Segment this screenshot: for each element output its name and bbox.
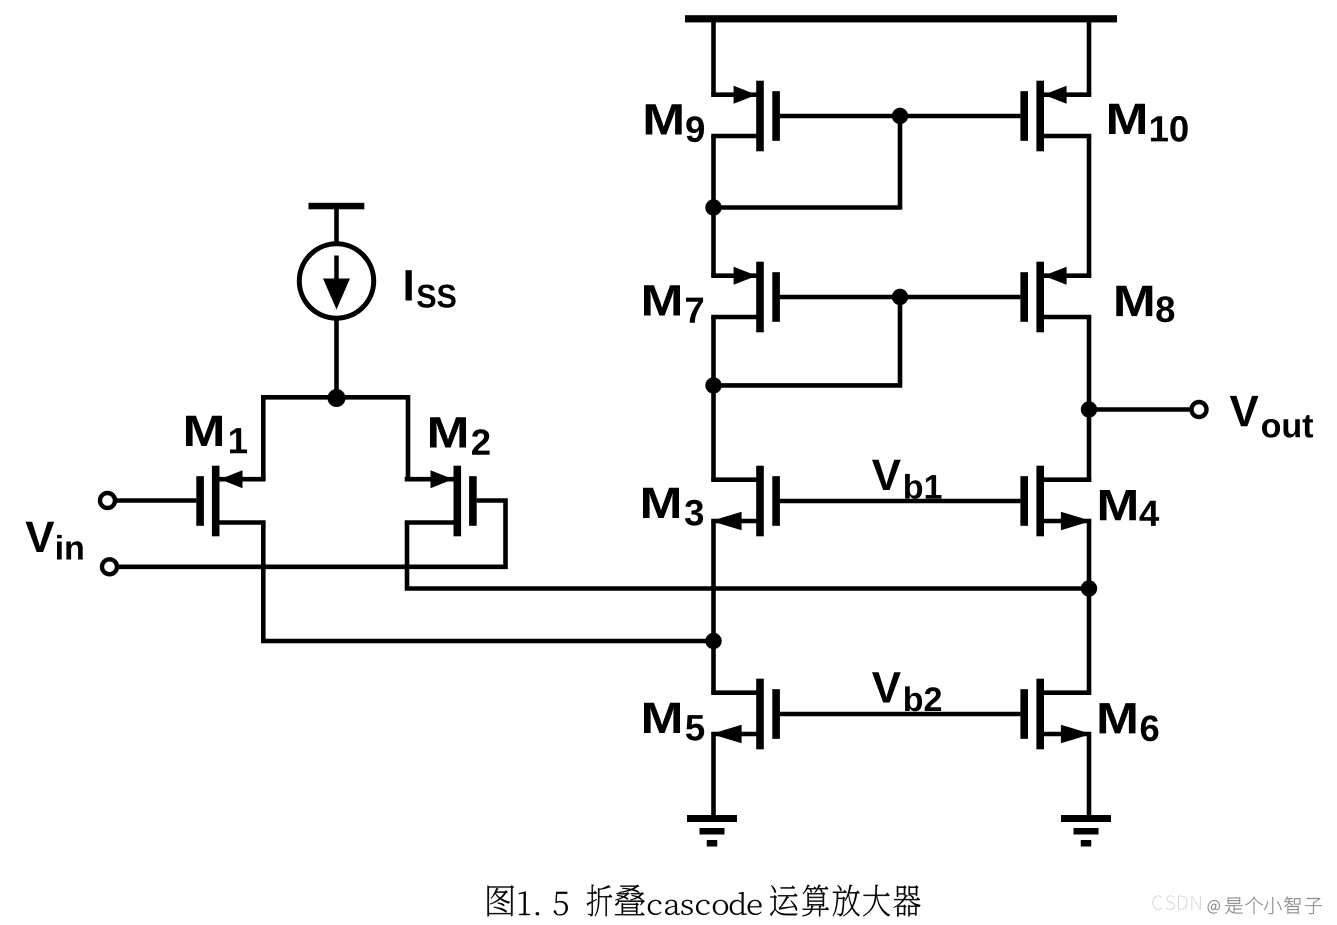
ground left (687, 815, 737, 847)
wire tail to M1/M2 sources (263, 397, 408, 480)
wire right branch M10 drain to M8 source (1087, 136, 1092, 276)
label Vb1 (872, 460, 901, 490)
node M4 source junction (1081, 580, 1097, 596)
label M3 (643, 488, 679, 518)
caption 图1.5 折叠cascode运算放大器 (488, 885, 921, 917)
wire Vb2 gate line M5-M6 (780, 712, 1021, 717)
transistor M5 (711, 679, 780, 750)
power rail VDD (685, 15, 1117, 22)
label M5 (644, 703, 680, 733)
wire ISS to tail node (334, 318, 339, 399)
wire M9 gate-drain tie (714, 116, 901, 208)
wire M6 source to ground (1087, 736, 1092, 819)
label M1 (186, 416, 222, 446)
wire M7-M8 gate line (780, 295, 1021, 300)
label M7 (644, 285, 680, 315)
transistor M10 (1020, 81, 1091, 152)
transistor M8 (1020, 262, 1091, 333)
label M6 (1100, 703, 1136, 733)
label M4 (1100, 490, 1136, 520)
terminal Vin- (102, 559, 117, 574)
wire M2 drain to M4 source node (407, 523, 1089, 589)
wire left branch M9 drain to M7 source (711, 136, 716, 276)
wire Vb1 gate line M3-M4 (780, 499, 1021, 504)
wire Vout (1089, 407, 1192, 412)
wire M1 drain to M3 source node (263, 523, 713, 642)
power supply bar for ISS (309, 203, 365, 210)
label M10 (1109, 104, 1145, 134)
node Vout junction (1081, 401, 1097, 417)
transistor M6 (1020, 679, 1091, 750)
wire left branch from VDD rail to M9 source (711, 18, 716, 95)
transistor M1 (196, 466, 265, 537)
transistor M9 (711, 81, 780, 152)
label M9 (646, 104, 682, 134)
current source ISS (299, 244, 373, 318)
wire right branch from VDD rail to M10 source (1087, 18, 1092, 95)
node M7 gate junction (892, 289, 908, 305)
transistor M4 (1020, 466, 1091, 537)
label M8 (1116, 286, 1152, 316)
node M9 drain junction (705, 199, 721, 215)
node M7 drain junction (705, 377, 721, 393)
wire left branch M7 drain to M3 drain (711, 317, 716, 480)
node M3 source junction (705, 633, 721, 649)
wire left branch M3 source to M5 drain (711, 522, 716, 693)
wire M7 gate-drain tie (714, 297, 901, 385)
transistor M7 (711, 262, 780, 333)
ground right (1061, 815, 1111, 847)
wire Vin+ to M1 gate (115, 498, 196, 503)
node M9 gate junction (892, 108, 908, 124)
transistor M2 (405, 466, 477, 537)
wire M5 source to ground (711, 736, 716, 819)
wire right branch M8 drain to M4 drain (1087, 317, 1092, 480)
wire Vin- to M2 gate (117, 501, 506, 567)
terminal Vout (1192, 402, 1207, 417)
node tail junction (328, 389, 346, 407)
terminal Vin+ (100, 493, 115, 508)
wire right branch M4 source to M6 drain (1087, 522, 1092, 693)
label Iss (406, 270, 412, 300)
transistor M3 (711, 466, 780, 537)
label Vin (26, 522, 55, 552)
label Vb2 (872, 672, 901, 702)
wire M9-M10 gate line (780, 114, 1021, 119)
watermark CSDN @是个小智子 (1153, 896, 1163, 910)
label M2 (430, 417, 466, 447)
label Vout (1230, 396, 1259, 426)
wire supply bar to ISS (334, 208, 339, 246)
